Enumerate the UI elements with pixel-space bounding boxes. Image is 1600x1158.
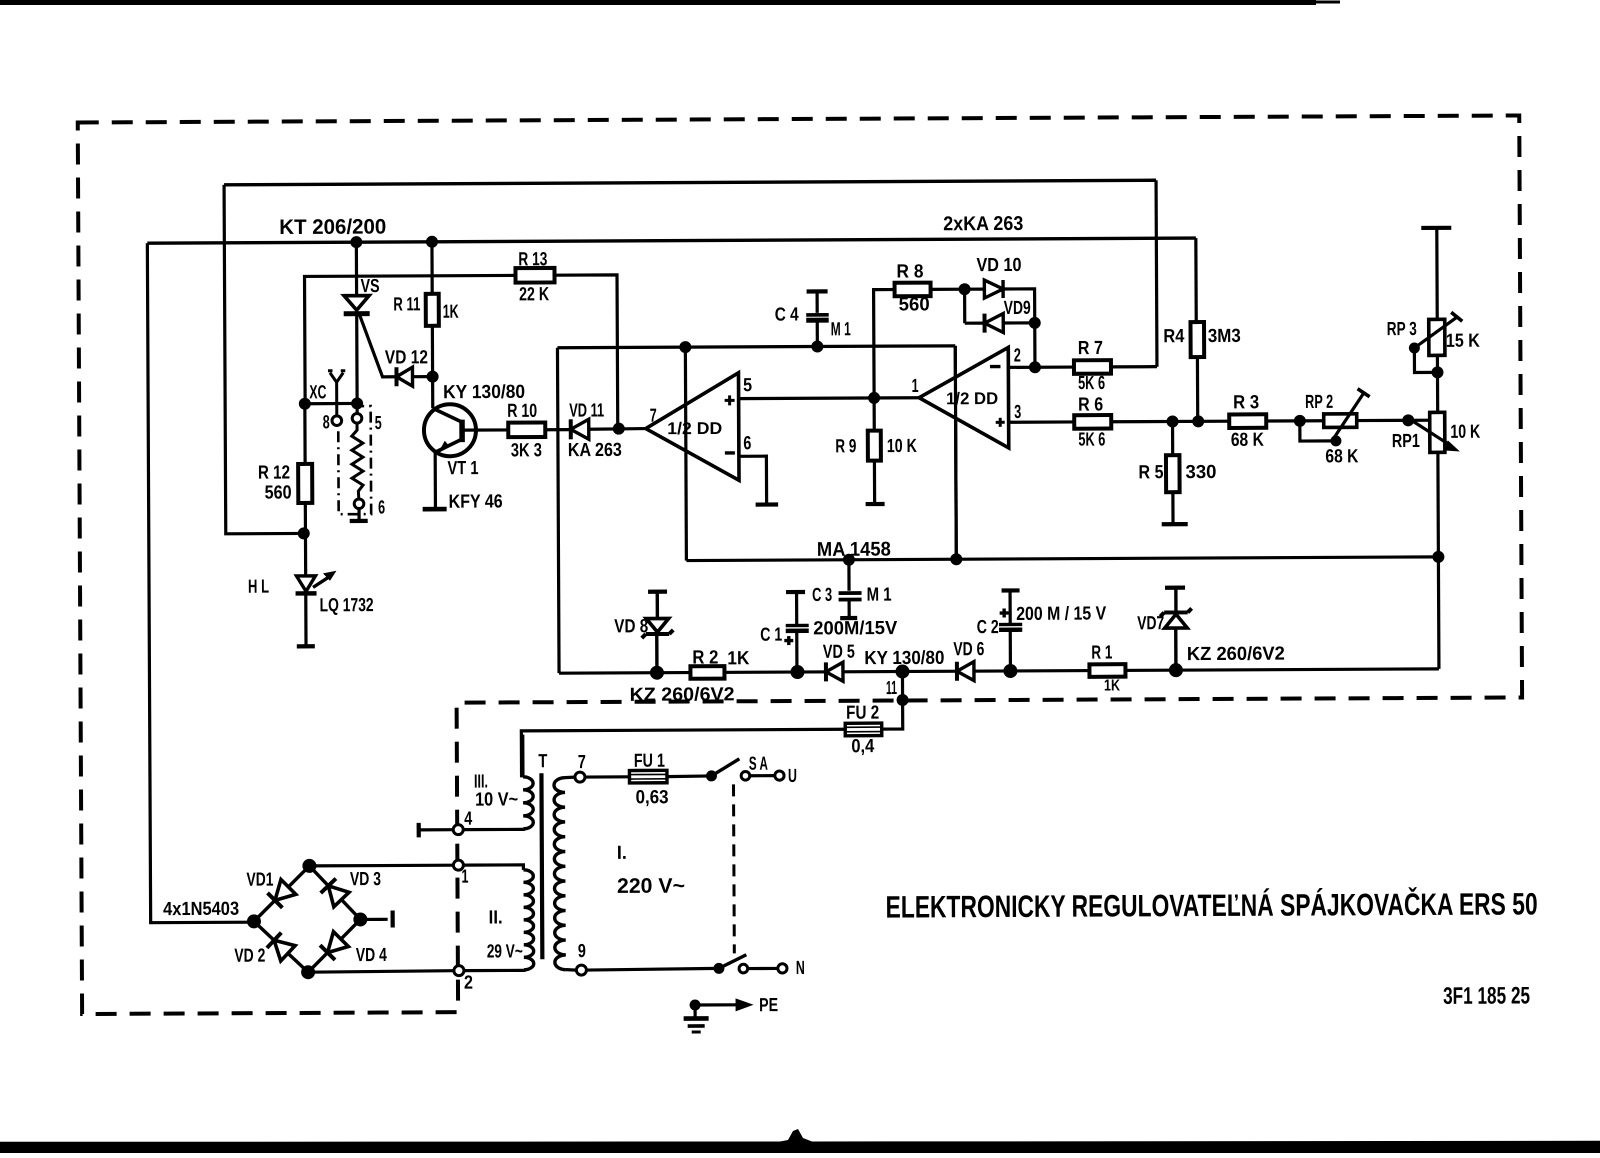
svg-text:PE: PE [759,995,778,1016]
svg-text:4: 4 [464,809,472,830]
svg-text:15 K: 15 K [1446,331,1480,352]
opamp2 plus sign [996,418,1005,427]
svg-text:R 10: R 10 [507,401,537,422]
svg-text:R 8: R 8 [896,261,923,282]
terminal bar RP3 top [1421,226,1451,230]
diode VD4 [320,932,348,960]
heating element zigzag [352,423,363,499]
transformer winding III 10V [523,777,533,829]
svg-text:VD 5: VD 5 [823,642,855,663]
wire VD10 left lead [965,287,985,290]
svg-text:2: 2 [1014,345,1021,366]
junction node R5 top [1167,415,1179,427]
wire node 11 drop [881,672,902,730]
wire RP2 wiper tie [1300,421,1336,441]
junction bridge right node [353,912,367,926]
svg-text:R 11: R 11 [393,294,420,315]
wire winding II bottom lead [464,968,524,972]
connector pin 1 [453,860,463,870]
wire R12 top lead [303,404,306,464]
wire HL bottom lead [304,593,307,646]
wire VT1 emitter lead [434,452,437,507]
svg-text:0,63: 0,63 [636,787,669,808]
svg-text:VD1: VD1 [246,870,273,891]
junction node XC right [351,397,363,409]
wire pin3 wire [1009,420,1075,424]
svg-text:U: U [788,766,797,787]
scan artifact top bar [0,0,1316,5]
junction node C4 bottom [811,340,823,352]
wire inner loop vertical [224,184,304,533]
resistor R1 [1089,664,1125,677]
svg-text:1/2 DD: 1/2 DD [667,419,722,438]
wire R9 bottom lead [873,461,876,503]
wire VS cathode wire [355,314,359,404]
junction node C3 top [843,554,855,566]
thyristor VS [344,296,369,311]
potentiometer RP2 [1324,414,1357,428]
connector pin 6 [354,499,364,509]
wire R8 left lead [874,290,896,398]
wire RP3 top lead [1435,228,1439,319]
wire RP2 to RP1 [1357,419,1438,423]
svg-text:2xKA 263: 2xKA 263 [943,213,1023,235]
transformer winding I 220V primary [554,778,566,970]
junction node RP2 wiper [1330,435,1341,446]
svg-text:R 12: R 12 [258,462,290,483]
svg-text:6: 6 [743,433,751,454]
svg-text:I.: I. [617,843,627,864]
dashed enclosure border [78,115,1524,1014]
svg-text:N: N [796,958,805,979]
svg-text:VS: VS [361,276,380,297]
terminal N [778,964,787,973]
svg-text:7: 7 [578,752,586,773]
wire bridge bottom to pin2 [308,971,454,973]
svg-text:5K 6: 5K 6 [1078,373,1105,394]
earth symbol [684,1016,709,1021]
svg-text:68 K: 68 K [1325,446,1358,467]
junction node VD8 [650,666,664,680]
diode VD10 [984,280,1003,298]
terminal U [775,771,784,780]
junction node pin7 [613,423,625,435]
svg-text:0,4: 0,4 [851,736,874,757]
svg-text:VD 12: VD 12 [385,347,428,368]
junction node 11 [895,664,909,678]
junction node R12 bottom [298,527,310,539]
wire FU2 to winding III [521,729,845,777]
wire winding I top lead [565,776,575,780]
terminal bar pin 4 [417,823,421,837]
wire opamp2 supply vertical [955,346,956,559]
resistor R9 [868,431,881,461]
svg-text:XC: XC [309,382,326,403]
junction node RP1 wiper [1402,414,1414,426]
wire rail KA263 corner to R4 [1194,238,1198,322]
svg-text:KZ 260/6V2: KZ 260/6V2 [1187,644,1285,665]
wire VT1 collector lead [431,377,434,409]
wire RP3 wiper tie [1414,348,1437,373]
wire VD9 leads [965,321,985,324]
resistor R13 [515,268,554,283]
svg-text:R 5: R 5 [1138,462,1163,483]
svg-text:VD 2: VD 2 [234,946,265,967]
junction node C1 [790,665,804,679]
junction bridge top node [302,859,316,873]
wire VD12 to R11 node [413,375,433,378]
junction bridge left node [247,914,261,928]
junction node RP3 wiper top [1409,342,1420,353]
svg-text:R 1: R 1 [1091,642,1112,663]
wire winding III bottom lead [463,827,523,831]
resistor R11 [426,294,439,326]
capacitor C4 [807,289,828,293]
svg-text:VD 10: VD 10 [976,255,1021,276]
resistor R6 [1074,415,1111,429]
wire R8 to VD10 [931,288,965,291]
svg-text:1K: 1K [443,302,459,323]
zener diode VD7 [1174,628,1178,670]
wire VD9 left vertical [963,289,966,323]
wire XC wire [305,402,357,405]
wire winding I bottom lead [566,968,577,972]
svg-text:1: 1 [912,376,919,397]
svg-text:VD 11: VD 11 [569,400,604,421]
wire VD11 to opamp [589,427,646,431]
wire MA1458 supply rail [686,557,1438,561]
svg-text:1K: 1K [727,648,749,669]
transformer winding II 29V [523,870,533,970]
wire pin5 wire [739,396,919,400]
wire R13 left lead [305,275,517,403]
wire R5 bottom lead [1171,492,1174,523]
diode VD5 [824,662,828,681]
junction SA upper pivot [706,770,717,781]
resistor R5 [1166,455,1180,492]
wire bridge plus wire [360,918,387,921]
diode VD9 [983,314,987,333]
wire pin4 wire [419,828,453,831]
wire R10 to VD11 [545,428,570,431]
terminal bar below HL [297,644,315,648]
svg-text:VD 3: VD 3 [350,869,381,890]
svg-text:VD9: VD9 [1004,298,1031,319]
wire XC to pin5 [356,403,359,413]
svg-text:5K 6: 5K 6 [1078,430,1105,451]
capacitor C2 [1009,631,1012,670]
svg-text:220 V~: 220 V~ [617,875,685,898]
wire VD10 right lead [1003,289,1035,368]
svg-text:KT 206/200: KT 206/200 [279,216,386,240]
connector pin 7 [575,772,585,782]
wire opamp1 supply vertical [685,347,686,560]
svg-text:10 K: 10 K [887,436,917,457]
svg-text:11: 11 [886,678,897,699]
svg-text:3M3: 3M3 [1208,326,1241,347]
svg-text:LQ 1732: LQ 1732 [320,595,374,616]
svg-text:R 6: R 6 [1078,395,1103,416]
junction node VD12/R11 [427,371,439,383]
diode VD6 [955,662,959,681]
wire 0V wire [557,346,955,348]
svg-text:KFY 46: KFY 46 [449,491,503,512]
svg-text:R 3: R 3 [1233,392,1259,413]
svg-text:VT 1: VT 1 [447,458,478,479]
svg-text:RP 2: RP 2 [1305,392,1333,413]
terminal bar R9 [866,502,885,506]
wire pin9 to SA lower [586,968,719,970]
wire R9 top lead [873,398,876,431]
terminal bar pin6 [756,502,778,506]
wire R11 top lead [430,242,433,294]
svg-text:1K: 1K [1104,677,1120,694]
junction node R4 bottom [1192,415,1204,427]
connector pin 8 [332,416,342,426]
svg-text:M 1: M 1 [831,319,851,340]
junction bridge bottom node [301,965,315,979]
svg-text:3: 3 [1014,402,1021,423]
wire RP3 to RP1 [1436,355,1439,412]
wire R13 right lead [555,275,618,429]
svg-text:II.: II. [489,907,503,928]
resistor R7 [1074,360,1111,374]
wire R5 top lead [1171,421,1174,455]
scan artifact bottom bar [0,1142,1600,1153]
resistor R3 [1229,414,1266,428]
junction node RP2 left [1294,415,1306,427]
junction node C2 [1003,664,1017,678]
wire R6 to R3 [1111,420,1229,424]
svg-text:VD 6: VD 6 [953,639,984,660]
wire pin7 to FU1 [585,775,629,778]
svg-text:29 V~: 29 V~ [487,941,523,962]
resistor R2 [690,666,724,679]
junction node VD7 [1169,663,1183,677]
opamp1 plus sign [725,395,735,405]
svg-text:R4: R4 [1163,326,1184,347]
svg-text:4x1N5403: 4x1N5403 [163,899,239,920]
svg-text:M 1: M 1 [867,585,892,606]
svg-text:R 7: R 7 [1078,338,1103,359]
junction node supply/feedback [679,341,691,353]
junction node VD9 right [1029,317,1041,329]
svg-text:3K 3: 3K 3 [511,440,542,461]
switch SA mechanical link [732,784,736,953]
svg-text:68 K: 68 K [1231,430,1264,451]
junction PE node [690,999,701,1010]
connector pin 5 [352,413,362,423]
connector pin 9 [576,965,586,975]
svg-text:3F1 185 25: 3F1 185 25 [1443,982,1530,1009]
C1 plus mark [784,636,793,645]
svg-text:FU 2: FU 2 [846,703,879,724]
diode VD2 [267,933,295,961]
svg-text:ELEKTRONICKY REGULOVATEĽNÁ SP: ELEKTRONICKY REGULOVATEĽNÁ SPÁJKOVAČKA E… [886,885,1538,924]
junction node R11 top [426,236,438,248]
svg-text:C 4: C 4 [775,305,799,326]
fuse FU1 [629,770,667,783]
junction node 11 boundary [897,694,909,706]
wire VT1 base wire [462,428,508,431]
wire bridge top to pin1 [309,864,453,868]
wire pin6 ground wire [739,456,767,504]
svg-text:R 2: R 2 [692,647,718,668]
resistor R10 [508,422,545,437]
junction node VS top [350,236,362,248]
svg-text:6: 6 [378,498,385,519]
diode VD11 [569,419,573,439]
wire RP1 bottom lead [1438,452,1439,668]
wire 0V right drop [955,346,956,559]
svg-text:560: 560 [265,482,292,503]
wire vertical to R7 [1154,180,1158,366]
svg-text:C 3: C 3 [812,585,832,606]
svg-text:RP 3: RP 3 [1387,319,1417,340]
op-amp U1a 1/2 MA1458 [645,373,739,481]
capacitor C1 [795,633,798,672]
wire pin2 wire [1008,365,1074,369]
wire VS anode wire [355,242,358,295]
wire bottom rail [559,669,1439,673]
opamp2 minus sign [990,365,1000,368]
wire VD9 right lead [1003,321,1034,324]
soldering iron dash-dot outline [338,406,371,514]
resistor R12 [298,464,312,503]
C2 plus mark [1000,608,1009,617]
wire R12 bottom lead [304,503,308,576]
potentiometer RP1 [1430,412,1445,452]
svg-text:RP1: RP1 [1392,431,1420,452]
svg-text:C 2: C 2 [977,617,999,638]
wire winding II top lead [463,865,523,870]
junction SA lower pivot [713,963,724,974]
transformer core [539,773,544,959]
wire R7 right lead [1111,365,1157,368]
svg-text:5: 5 [375,413,382,434]
svg-text:10 K: 10 K [1450,422,1480,443]
wire R4 bottom lead [1196,357,1200,421]
wire 0V left drop [557,348,559,673]
wire rail top loop [224,180,1156,185]
svg-text:330: 330 [1185,462,1216,483]
capacitor C3 [847,560,850,591]
resistor R8 [895,283,931,297]
op-amp U1b 1/2 MA1458 [919,347,1009,448]
junction node R8/VD10 [959,283,971,295]
terminal bar VT1 emitter [423,507,447,512]
svg-text:VD7: VD7 [1137,613,1164,634]
zener diode VD8 [655,635,659,673]
svg-text:5: 5 [743,375,752,396]
svg-text:200 M / 15 V: 200 M / 15 V [1016,604,1106,625]
wire pin6 stub [357,509,360,521]
svg-text:KA 263: KA 263 [568,440,622,461]
junction node XC left [299,398,311,410]
diode VD1 [268,879,296,907]
potentiometer RP3 [1429,319,1445,355]
svg-text:H L: H L [248,577,269,598]
svg-text:8: 8 [323,412,330,433]
thyristor VS gate wire [360,315,395,377]
terminal bar R5 [1162,522,1188,526]
wire SA to U [750,774,775,777]
wire FU1 to SA [667,774,712,778]
svg-text:9: 9 [578,941,586,962]
resistor R4 [1190,322,1204,357]
diode VD3 [321,879,349,907]
svg-text:R 13: R 13 [518,249,547,270]
junction node opamp2 supply [950,553,962,565]
svg-text:C 1: C 1 [760,625,782,646]
LED HL [296,576,315,592]
wire SA to N [748,967,778,970]
svg-text:10 V~: 10 V~ [475,789,518,810]
wire rail KT206/200 top [147,238,1195,243]
svg-text:22 K: 22 K [519,284,549,305]
junction node RP3 bottom [1431,366,1443,378]
svg-text:FU 1: FU 1 [634,751,665,772]
svg-text:2: 2 [464,973,473,994]
junction node pin2 [1029,361,1041,373]
diode VD12 [394,367,398,386]
svg-text:560: 560 [899,294,930,315]
wire R11 bottom lead [431,326,434,377]
sensor fork at pin 8 [328,371,346,416]
junction node pin5/R9 [868,392,880,404]
svg-text:200M/15V: 200M/15V [813,618,897,639]
opamp1 minus sign [725,451,735,454]
bridge rectifier diamond [254,866,361,973]
wire winding III top lead [521,735,524,777]
svg-text:VD 8: VD 8 [614,616,648,637]
svg-text:T: T [538,751,547,772]
fuse FU2 [845,723,882,736]
wire R3 to RP2 [1266,419,1323,422]
junction node RP1/rail [1432,551,1444,563]
connector pin 4 [453,825,463,835]
protective earth PE [693,1000,696,1017]
wire left outer vertical [147,243,252,923]
svg-text:VD 4: VD 4 [356,945,387,966]
svg-text:KZ 260/6V2: KZ 260/6V2 [630,684,735,706]
svg-text:R 9: R 9 [835,436,856,457]
terminal bar below pin 6 [350,519,368,523]
terminal bar bridge output [391,910,395,927]
svg-text:S A: S A [749,754,768,775]
svg-text:1: 1 [461,867,468,888]
connector pin 2 [454,966,464,976]
transistor VT1 [424,404,476,456]
